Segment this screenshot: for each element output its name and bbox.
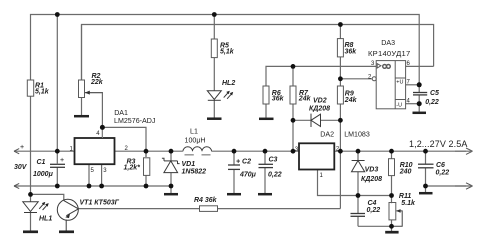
- resistor R3: [144, 158, 150, 176]
- svg-text:КР140УД17: КР140УД17: [368, 49, 410, 58]
- junction node DA2 pin1 line / R10-R11: [389, 193, 394, 198]
- wire C3 column: [264, 151, 266, 164]
- svg-text:VD1: VD1: [182, 161, 196, 168]
- R2 wiper arrow: [88, 92, 102, 94]
- ground under HL2: [207, 117, 222, 120]
- svg-text:+ C2: + C2: [236, 159, 251, 166]
- junction node R6-R7 divider / DA3 pin3: [291, 64, 296, 69]
- wire HL2 cathode to ground: [213, 100, 215, 117]
- wire HL1 cathode to ground: [30, 213, 32, 231]
- diode VD1 (schottky 1N5822): [162, 158, 180, 172]
- junction node output line / VD3: [356, 149, 361, 154]
- svg-text:КД208: КД208: [361, 176, 382, 183]
- junction node output line / R10: [389, 149, 394, 154]
- resistor R8: [337, 39, 343, 57]
- wire DA1 pin3 to minus rail: [101, 164, 103, 186]
- output terminal arrow plus: [466, 148, 473, 154]
- svg-text:C3: C3: [269, 157, 278, 164]
- svg-text:VD2: VD2: [313, 98, 327, 105]
- junction node DA1 pin2 line / R3: [144, 149, 149, 154]
- resistor R2 (trimmer body): [79, 80, 85, 98]
- svg-text:5,1k: 5,1k: [35, 88, 50, 95]
- resistor R11 (trimmer body): [389, 203, 396, 220]
- svg-text:1: 1: [320, 173, 324, 179]
- wire DA3 pin6 to rail B corner: [406, 65, 434, 67]
- junction node FB (R2 wiper / DA1 pin4 / R3): [100, 125, 105, 130]
- svg-text:DA2: DA2: [320, 131, 334, 139]
- resistor R4: [200, 206, 218, 212]
- svg-text:+U: +U: [396, 80, 403, 86]
- junction node minus rail / DA1 pin5: [87, 184, 92, 189]
- ground under C5: [413, 112, 427, 115]
- wire C2 column: [233, 151, 235, 165]
- wire R7 column: [292, 66, 294, 86]
- op-amp triangle-infinity symbol: [377, 64, 381, 68]
- resistor R7: [290, 86, 296, 104]
- wire DA2 pin1 down and right: [318, 170, 392, 196]
- junction node +30V rail / R5: [212, 12, 217, 17]
- svg-text:5: 5: [91, 168, 95, 174]
- wire input plus line: [14, 150, 75, 152]
- junction node -U / C5: [417, 101, 422, 106]
- wire C1 column from rail A to input line: [56, 15, 58, 152]
- wire C4 column: [357, 196, 359, 214]
- junction node DA2 pin3: [291, 149, 296, 154]
- svg-text:3: 3: [103, 168, 107, 174]
- wire VD2 anode side: [293, 119, 311, 121]
- svg-text:1N5822: 1N5822: [182, 169, 207, 176]
- svg-text:DA1: DA1: [114, 109, 128, 117]
- junction node input / C1: [55, 149, 60, 154]
- wire VD1: [170, 151, 172, 161]
- ground under C6: [419, 192, 433, 195]
- wire ground stub under VD1: [170, 186, 172, 193]
- svg-text:VD3: VD3: [365, 167, 379, 174]
- junction node minus rail / C1: [55, 184, 60, 189]
- junction node VD2 anode / R7: [291, 118, 296, 123]
- junction node minus rail / VD1: [169, 184, 174, 189]
- svg-text:+: +: [20, 143, 24, 151]
- wire R3 body to minus rail: [145, 151, 147, 157]
- input terminal arrow minus: [14, 183, 19, 188]
- wire R4 line VT1 collector to output column: [78, 208, 199, 210]
- ground under VD1: [164, 193, 178, 196]
- wire R8R9 column down to output line and R4 line: [339, 120, 341, 208]
- svg-text:1,2k*: 1,2k*: [124, 165, 141, 172]
- wire R2 top: [81, 25, 83, 81]
- LED HL1: [23, 202, 48, 213]
- svg-text:30V: 30V: [14, 164, 28, 171]
- wire DA3 pin4 to C5 bottom node: [406, 103, 420, 105]
- junction node HL1 anode / VT1 base: [28, 192, 33, 197]
- svg-text:+: +: [60, 156, 64, 164]
- svg-text:-U: -U: [396, 102, 402, 108]
- wire input minus rail: [14, 185, 171, 187]
- wire VD2 cathode side: [321, 119, 341, 121]
- wire DA3 pin7 to C5 node: [406, 84, 420, 86]
- DA3 inverting input bubble: [372, 77, 376, 81]
- ground under R2: [74, 115, 89, 118]
- ground under C2: [227, 193, 241, 196]
- svg-text:0,22: 0,22: [425, 99, 439, 106]
- junction node output line / C6: [423, 149, 428, 154]
- wire R2 wiper to node FB: [85, 93, 103, 138]
- junction node output LC / C2: [232, 149, 237, 154]
- junction node minus rail / R3: [144, 184, 149, 189]
- junction node +30V rail / C1 column: [55, 12, 60, 17]
- wire R2 bottom to ground: [81, 98, 83, 116]
- svg-text:36k: 36k: [272, 96, 285, 103]
- ground under R6: [259, 118, 274, 121]
- ground under VT1: [59, 230, 74, 233]
- resistor R10: [389, 159, 395, 176]
- wire C4 bottom to R11 bottom: [358, 225, 392, 227]
- svg-text:L1: L1: [190, 127, 198, 135]
- svg-text:HL2: HL2: [222, 80, 235, 87]
- wire C6 column: [425, 151, 427, 164]
- capacitor C1 (polarized): [50, 164, 65, 167]
- inductor L1 core bars: [185, 154, 211, 156]
- junction node +U / C5: [417, 82, 422, 87]
- junction node C4 / R11 bottom: [389, 224, 394, 229]
- wire VD3 column: [357, 151, 359, 160]
- IC DA1 box: [75, 138, 115, 164]
- wire DA3 pin2 from R8R9 node to bubble: [340, 78, 372, 80]
- diode VD2: [311, 114, 321, 127]
- transistor VT1: [57, 199, 78, 230]
- junction node R8-R9 / DA3 pin2: [338, 76, 343, 81]
- svg-text:5.1k: 5.1k: [401, 200, 416, 207]
- svg-text:КД208: КД208: [309, 106, 330, 113]
- svg-text:R4 36k: R4 36k: [194, 197, 218, 204]
- svg-text:C6: C6: [436, 162, 445, 169]
- wire R10 column: [391, 151, 393, 159]
- op-amp DA3 box: [372, 61, 405, 109]
- junction node VD2 cathode / R9: [338, 118, 343, 123]
- wire R1 bottom to HL1 node: [30, 96, 32, 202]
- ground under HL1: [23, 230, 38, 233]
- junction node DA1 pin2 line / VD1: [169, 149, 174, 154]
- svg-text:DA3: DA3: [381, 39, 395, 47]
- resistor R1: [27, 80, 33, 96]
- R11 wiper arrow: [392, 211, 403, 226]
- capacitor C5: [413, 93, 427, 95]
- diode VD3: [352, 161, 365, 172]
- wire R8 column from rail B: [339, 25, 341, 39]
- LED HL2: [207, 91, 232, 101]
- wire node FB to R3 top: [102, 127, 146, 157]
- capacitor C4: [351, 214, 366, 217]
- wire DA2 pin3 vertical from VD2 line: [292, 120, 294, 151]
- wire lower output line: [426, 185, 467, 187]
- svg-text:240: 240: [399, 169, 412, 176]
- input terminal arrow plus: [14, 149, 19, 154]
- svg-text:4: 4: [96, 131, 100, 137]
- wire DA1 pin5 to minus rail: [88, 164, 90, 186]
- resistor R9: [337, 86, 343, 104]
- capacitor C3: [259, 164, 274, 167]
- svg-text:LM1083: LM1083: [344, 131, 370, 139]
- wire R11 column: [391, 196, 393, 204]
- capacitor C2: [228, 165, 240, 169]
- wire R5 to HL2: [213, 15, 215, 40]
- output terminal arrow minus: [466, 183, 473, 189]
- svg-text:HL1: HL1: [39, 216, 52, 223]
- resistor R6: [263, 86, 269, 104]
- svg-text:36k: 36k: [345, 49, 358, 56]
- wire output line DA2 pin2 to arrow: [334, 150, 466, 152]
- wire R6 bottom to ground: [265, 104, 267, 118]
- wire top rail +30V (net A): [31, 15, 420, 93]
- svg-text:100μH: 100μH: [185, 137, 206, 145]
- svg-text:C1: C1: [37, 159, 46, 166]
- junction node op-amp out rail / R8: [338, 22, 343, 27]
- resistor R5: [211, 39, 217, 58]
- junction node minus rail / DA1 pin3: [99, 184, 104, 189]
- svg-text:1000μ: 1000μ: [33, 171, 54, 178]
- svg-text:0,22: 0,22: [436, 170, 450, 177]
- svg-text:24k: 24k: [298, 96, 312, 103]
- wire R11 bottom ground stub: [391, 226, 393, 231]
- svg-text:C5: C5: [430, 90, 439, 97]
- wire DA1 pin4: [101, 127, 103, 138]
- junction node output LC / C3: [263, 149, 268, 154]
- wire R9 column: [339, 79, 341, 86]
- junction node output line / R4 column: [338, 149, 343, 154]
- svg-text:0,22: 0,22: [367, 207, 381, 214]
- wire C5 bottom to ground: [418, 95, 420, 112]
- wire R6 top corner to DA3 pin3 line: [266, 66, 376, 86]
- svg-text:24k: 24k: [344, 97, 358, 104]
- svg-text:LM2576-ADJ: LM2576-ADJ: [114, 117, 156, 125]
- wire rail B (op-amp output net, y=24.5): [82, 25, 434, 81]
- svg-text:5,1k: 5,1k: [220, 48, 235, 55]
- svg-text:22k: 22k: [90, 79, 104, 86]
- svg-text:470μ: 470μ: [239, 172, 257, 179]
- svg-text:VT1 КТ503Г: VT1 КТ503Г: [80, 199, 120, 206]
- wire DA1 pin2 output line to DA2 pin3: [115, 150, 183, 152]
- ground under R11: [385, 231, 398, 234]
- junction node DA2 pin1 line / VD3: [356, 193, 361, 198]
- svg-text:R11: R11: [399, 193, 411, 200]
- ground under C3: [258, 193, 272, 196]
- wire C1 bottom: [56, 167, 58, 186]
- svg-text:0,22: 0,22: [268, 172, 282, 179]
- wire VT1 base from HL1 node: [31, 194, 64, 200]
- svg-text:1,2...27V 2.5A: 1,2...27V 2.5A: [409, 139, 467, 149]
- inductor L1: [183, 147, 212, 151]
- junction node C6 / minus output: [423, 184, 428, 189]
- IC DA2 box: [299, 143, 334, 169]
- svg-text:2: 2: [368, 75, 372, 81]
- capacitor C6: [418, 164, 434, 168]
